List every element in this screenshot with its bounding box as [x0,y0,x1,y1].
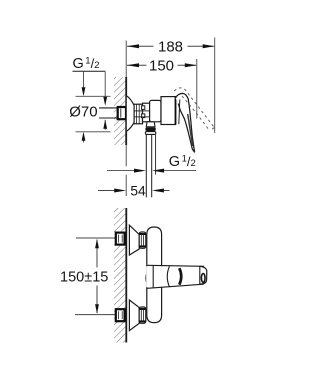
upper wall nut (front view) [116,233,125,245]
S-union nut (top view) [134,104,142,124]
G1/2 pipe dimension (vertical, at x=105) [104,71,106,100]
shower outlet elbow (top view) [146,122,155,127]
lower wall nut (front view) [116,309,125,321]
escutcheon cone (top view) [126,96,134,132]
upper supply pipe (front view) [76,237,116,239]
upper S-union nut (front view) [139,232,146,248]
svg-text:150±15: 150±15 [60,269,108,285]
dimension 150 [196,59,198,119]
wall section (front view) [114,208,126,343]
mixer body capsule (front view) [147,227,162,323]
lower supply pipe (front view) [75,314,116,316]
label G1/2 (bottom) with pipe dimension [107,170,136,172]
outlet bulge on body (front view) [146,273,147,284]
svg-text:150: 150 [149,58,174,75]
lower escutcheon cone (front view) [129,300,139,331]
wall section (top view) [114,77,126,145]
svg-text:Ø70: Ø70 [69,103,97,120]
valve body (top view) [150,100,161,121]
lever handle alternate position (dashed) [174,88,183,91]
wall union nut (top view) [118,107,126,119]
dimension 188 [125,41,127,78]
upper escutcheon cone (front view) [129,225,139,255]
dimension 54 [125,145,127,166]
collar nut (top view) [143,103,150,122]
shower outlet pipe (top view) [145,135,147,198]
handle (front view) [146,266,200,287]
dimension Ø70 [76,95,111,97]
svg-text:54: 54 [130,183,146,198]
svg-text:188: 188 [158,39,183,56]
dimension 150±15 (front view) [96,240,98,268]
lower S-union nut (front view) [139,307,146,323]
supply pipe (top view) [99,107,118,109]
lever handle (top view) [176,93,195,152]
cartridge cap (top view) [161,97,176,125]
